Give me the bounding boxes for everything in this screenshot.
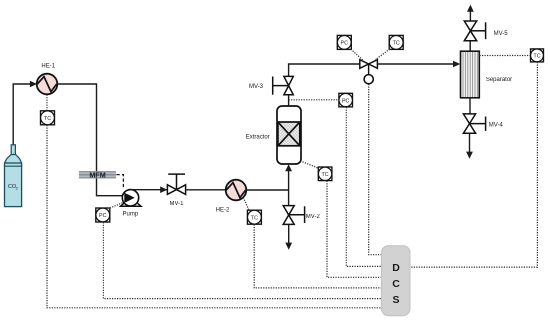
- heat exchanger HE-1: [37, 74, 58, 95]
- instrument TC at extractor bottom: [318, 167, 332, 181]
- svg-text:TC: TC: [393, 41, 400, 47]
- signal: PC to control valve diagonal: [351, 49, 363, 60]
- valve MV-4: [463, 114, 485, 133]
- svg-text:TC: TC: [44, 116, 51, 122]
- svg-text:PC: PC: [99, 213, 107, 219]
- wire: pump to MV-1 with arrow: [131, 189, 167, 191]
- DCS controller box: [381, 246, 410, 316]
- svg-text:PC: PC: [342, 98, 350, 104]
- instrument TC at separator: [531, 49, 544, 62]
- wire: MV-4 outlet down arrow: [469, 133, 471, 152]
- svg-text:Pump: Pump: [123, 212, 139, 218]
- signal: extractor to TC diagonal: [300, 161, 318, 168]
- svg-text:PC: PC: [341, 41, 349, 47]
- wire: branch down to MV-2: [288, 190, 290, 206]
- instrument TC at HE-2: [247, 210, 261, 224]
- svg-text:MV-1: MV-1: [169, 201, 184, 207]
- control valve CV: [360, 60, 378, 84]
- signal: TC to control valve diagonal: [375, 49, 390, 60]
- svg-text:HE-1: HE-1: [41, 64, 55, 70]
- flow meter MFM: [79, 171, 116, 180]
- valve MV-1: [167, 174, 185, 194]
- svg-text:HE-2: HE-2: [216, 208, 230, 214]
- valve MV-2: [283, 206, 304, 225]
- svg-text:D: D: [392, 262, 400, 274]
- signal: PC(extractor) to DCS: [346, 107, 381, 266]
- signal: TC(separator) to DCS right side: [410, 62, 537, 267]
- valve MV-3: [273, 76, 294, 94]
- svg-text:C: C: [392, 278, 400, 290]
- instrument PC at pump: [96, 208, 110, 222]
- wire: MV-1 to HE-2: [186, 189, 226, 191]
- svg-text:Separator: Separator: [486, 77, 512, 83]
- signal: separator to TC: [480, 55, 531, 57]
- svg-text:MV-3: MV-3: [249, 84, 264, 90]
- wire: separator top to MV-5: [469, 41, 471, 51]
- svg-text:MV-4: MV-4: [489, 123, 504, 129]
- instrument PC at extractor top: [339, 93, 353, 107]
- signal: HE-1 to TC: [46, 95, 48, 111]
- signal: pump to PC diagonal: [110, 202, 125, 208]
- instrument TC at control valve: [389, 35, 403, 49]
- heat exchanger HE-2: [226, 180, 247, 201]
- signal: PC(pump) to DCS: [103, 222, 381, 298]
- wire: HE-2 to junction at extractor branch: [246, 189, 288, 191]
- signal: extractor riser to PC: [289, 99, 339, 101]
- signal: control valve to DCS: [369, 84, 382, 255]
- svg-text:Extractor: Extractor: [246, 135, 270, 141]
- pump P-1: [121, 190, 141, 207]
- instrument PC at control valve: [337, 35, 351, 49]
- signal: TC(HE-2) to DCS: [254, 224, 381, 288]
- valve MV-5: [464, 21, 485, 41]
- svg-text:MV-2: MV-2: [306, 214, 321, 220]
- svg-text:TC: TC: [533, 54, 540, 60]
- signal: HE-2 to TC diagonal: [243, 197, 249, 210]
- CO2 cylinder: [5, 145, 22, 207]
- svg-text:S: S: [392, 294, 399, 306]
- wire: MV-3 up and across to separator with arrow, through control valve: [289, 64, 454, 76]
- signal: TC(extractor) to DCS: [327, 181, 382, 277]
- svg-text:TC: TC: [322, 172, 329, 178]
- arrow into HE-1: [30, 81, 37, 88]
- vessel Separator: [461, 51, 480, 98]
- svg-text:TC: TC: [251, 215, 258, 221]
- wire: HE-1 to MFM to pump: [57, 84, 122, 196]
- wire: separator bottom to MV-4: [469, 98, 471, 114]
- wire: MV-5 vent up arrow: [469, 11, 471, 21]
- instrument TC at HE-1: [41, 111, 55, 125]
- vessel Extractor: [277, 106, 301, 164]
- svg-text:MV-5: MV-5: [494, 31, 509, 37]
- wire: CO2 cylinder to HE-1: [13, 84, 30, 145]
- wire: extractor top to MV-3: [288, 95, 290, 106]
- wire: MV-2 outlet vent with down arrow: [288, 224, 290, 243]
- wire: riser into extractor bottom with up arrow: [288, 171, 290, 190]
- svg-text:MFM: MFM: [89, 171, 105, 180]
- dashed link MFM to pump: [117, 175, 124, 190]
- signal: TC(HE-1) to DCS: [47, 125, 382, 308]
